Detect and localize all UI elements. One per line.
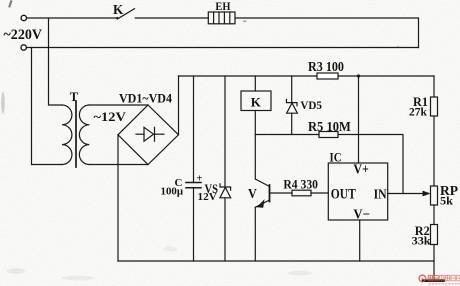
resistor R2 box (431, 225, 438, 245)
watermark logo circle (419, 275, 426, 282)
svg-text:+: + (197, 174, 203, 185)
transistor V (255, 179, 269, 208)
wire bridge minus (left vertex) down to bottom rail (117, 135, 119, 261)
resistor R5 box (319, 132, 338, 138)
wire C branch lower (193, 188, 195, 261)
wire IC V- down to bottom rail (359, 220, 361, 261)
ground stub below rail (433, 261, 435, 280)
wire R4 to IC OUT (311, 192, 328, 194)
resistor R1 box (431, 97, 438, 116)
wire +12V rail (179, 75, 435, 77)
wire C branch upper (193, 76, 195, 183)
transformer secondary winding (79, 105, 89, 165)
wire IN to RP wiper with arrow (388, 193, 429, 195)
terminal lower 220V (21, 45, 26, 50)
wire EH to right corner, down to lower rail (235, 18, 419, 48)
resistor R4 box (292, 190, 311, 196)
switch K (116, 9, 134, 19)
wire VD5 lower to R5 node (291, 113, 293, 134)
svg-text:OUT: OUT (331, 187, 356, 203)
svg-text:~220V: ~220V (4, 27, 43, 43)
svg-text:R4 330: R4 330 (283, 177, 318, 191)
svg-text:EH: EH (215, 0, 230, 13)
bridge internal diode symbol (136, 127, 164, 141)
transformer T primary winding (62, 105, 72, 165)
wire emitter down to bottom rail (254, 207, 256, 261)
zener diode VS (220, 184, 231, 198)
wire V+ from rail down to IC (358, 76, 360, 163)
diode VD5 (zener) (286, 99, 297, 113)
wire secondary bottom to bridge bottom vertex (89, 164, 148, 166)
wire top rail left (terminal to switch K) (27, 17, 117, 19)
wire bridge plus (right vertex) up to +rail (178, 76, 180, 135)
svg-text:V+: V+ (353, 163, 369, 178)
relay coil K box (241, 91, 271, 111)
watermark small caption (429, 283, 460, 285)
svg-text:33k: 33k (412, 233, 431, 247)
resistor R3 box on +rail (317, 73, 338, 79)
wire R5 node rail (255, 134, 319, 136)
transformer core (75, 101, 77, 167)
svg-text:T: T (70, 90, 79, 104)
terminal upper 220V (21, 15, 26, 20)
svg-text:K: K (251, 95, 262, 110)
wire R5 to IN column (338, 135, 403, 194)
op-amp IC box (328, 163, 387, 220)
wire RP to R2 (433, 205, 435, 225)
wire K branch from +rail (254, 76, 256, 91)
wire R2 down to bottom rail (433, 245, 435, 262)
wire secondary top to bridge top vertex (89, 104, 148, 106)
svg-text:V: V (248, 187, 257, 202)
watermark text blocks (428, 275, 460, 280)
wire K bottom to R5 node and collector (254, 111, 256, 180)
svg-text:K: K (113, 2, 124, 17)
svg-text:VD5: VD5 (300, 98, 322, 112)
wire lower rail branch down to transformer primary bottom (32, 48, 63, 165)
wire bottom ground rail (118, 260, 434, 262)
wire right column top (433, 76, 435, 97)
svg-text:IN: IN (374, 187, 387, 202)
svg-text:27k: 27k (409, 104, 427, 118)
wire VS branch upper (224, 76, 226, 187)
wire switch to EH (135, 17, 208, 19)
svg-text:12V: 12V (198, 192, 218, 203)
svg-text:R5 10M: R5 10M (308, 119, 351, 134)
potentiometer RP box (431, 186, 438, 205)
svg-text:VD1~VD4: VD1~VD4 (119, 91, 172, 105)
svg-text:R3 100: R3 100 (308, 59, 344, 74)
wire top rail branch down to transformer primary top (49, 18, 63, 105)
wire lower rail (27, 47, 419, 49)
wire VD5 branch upper (291, 76, 293, 103)
capacitor C plates (186, 183, 201, 188)
svg-text:IC: IC (330, 150, 342, 164)
bridge rectifier VD1~VD4 diamond (118, 105, 179, 165)
node junction V+ rail (357, 74, 360, 77)
heating element EH (208, 12, 235, 24)
wire VS branch lower (224, 198, 226, 261)
svg-text:100μ: 100μ (161, 185, 184, 197)
svg-text:~12V: ~12V (94, 109, 127, 124)
wire base to R4 (270, 192, 293, 194)
wire R1 to RP (433, 116, 435, 186)
svg-text:5k: 5k (440, 193, 453, 207)
svg-text:V−: V− (353, 207, 370, 222)
